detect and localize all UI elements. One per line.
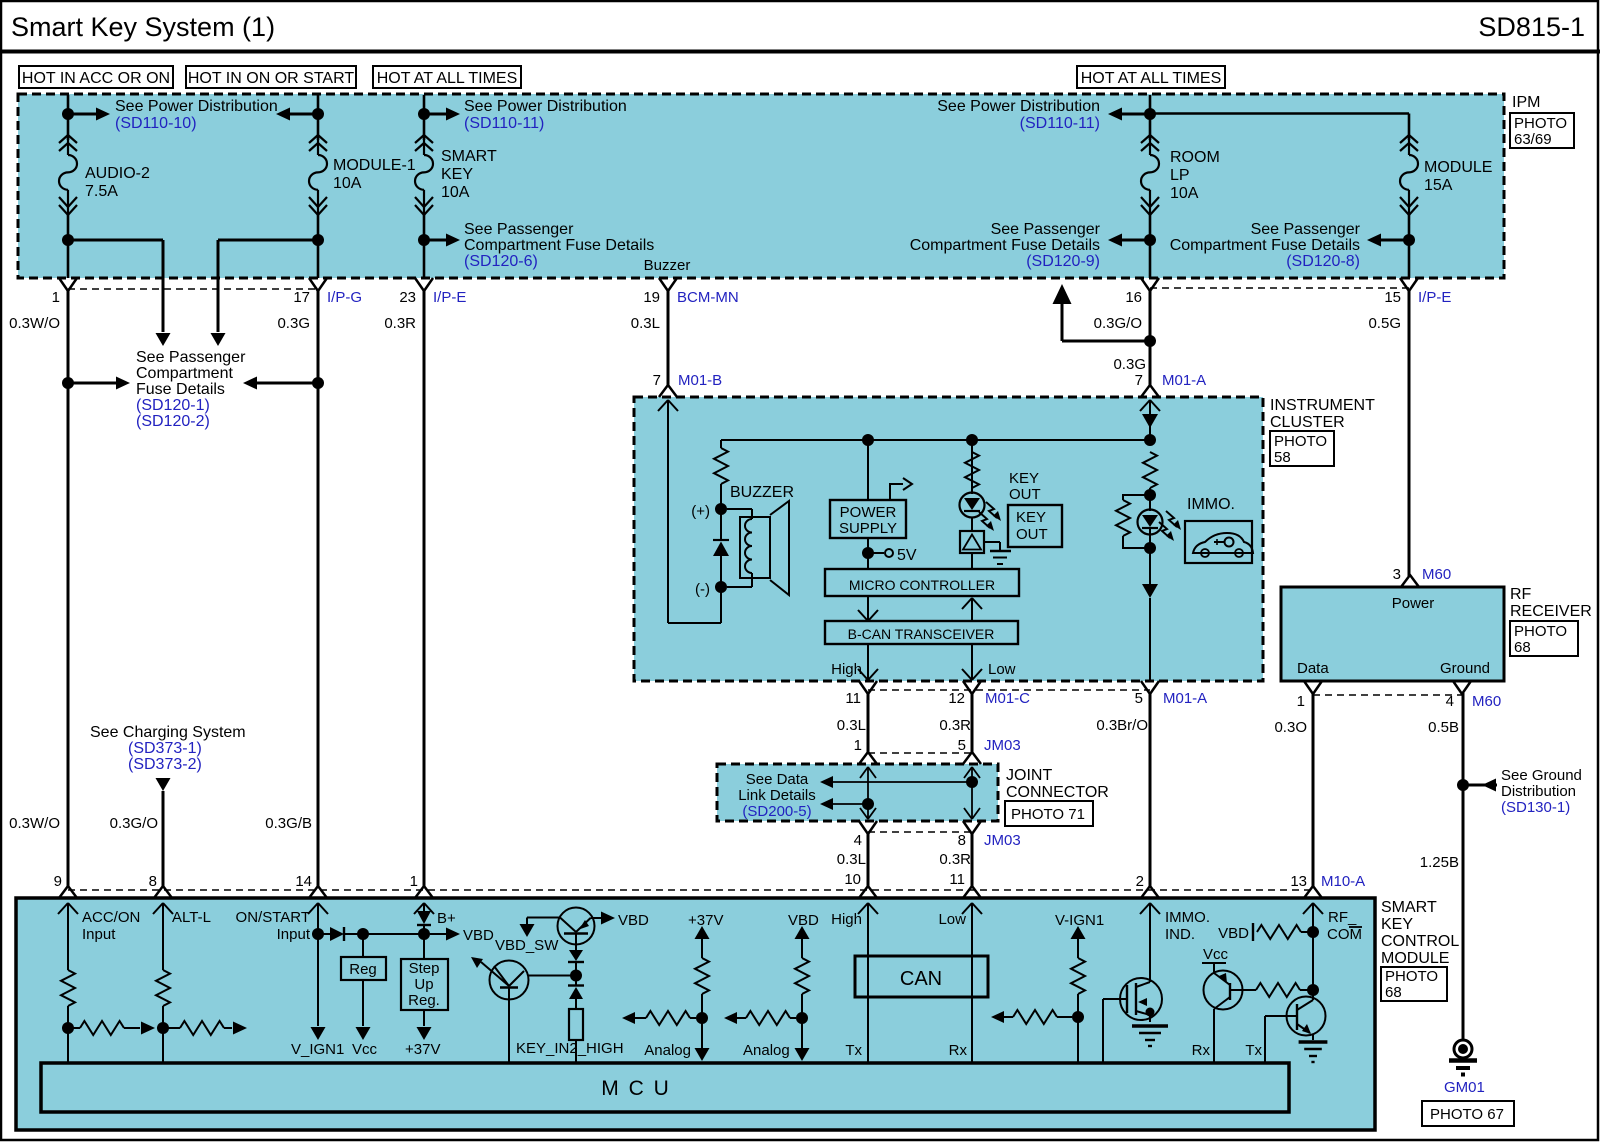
junction dot pin16 branch (1144, 335, 1156, 347)
connector pin symbol at x=1150 (1141, 278, 1159, 291)
svg-text:Data: Data (1297, 660, 1329, 677)
svg-text:HOT IN ACC OR ON: HOT IN ACC OR ON (22, 70, 170, 87)
svg-text:1: 1 (410, 873, 418, 890)
svg-text:COM: COM (1327, 926, 1362, 943)
svg-text:0.3L: 0.3L (837, 717, 866, 734)
power supply output flag (890, 484, 903, 500)
svg-text:PHOTO: PHOTO (1514, 623, 1567, 640)
RF PHOTO 68 box (1510, 621, 1578, 656)
arrow from charging system note (156, 778, 171, 791)
wire stub to SMART KEY fuse (423, 95, 426, 140)
wire 0.3G/O pin16 down (1149, 291, 1152, 386)
wire High JM03 to module pin10 (867, 833, 870, 887)
node dot ROOM LP bottom (1144, 234, 1156, 246)
node dot SMART KEY top (418, 108, 430, 120)
module pin 13 entry (1304, 886, 1322, 898)
node dot KEY OUT feed (966, 434, 978, 446)
svg-text:0.5B: 0.5B (1428, 719, 1459, 736)
connector pin symbol at x=68 (59, 278, 77, 291)
node dot ROOM LP top (1144, 108, 1156, 120)
svg-text:(SD120-1): (SD120-1) (136, 397, 210, 414)
svg-text:Analog: Analog (644, 1042, 691, 1059)
module pin 14 entry (309, 886, 327, 898)
svg-text:+37V: +37V (688, 912, 723, 929)
KEY OUT driver ground (984, 541, 1000, 543)
JM03 pin1 entry (859, 752, 877, 764)
cluster exit pin 12 (963, 681, 981, 694)
buzzer series resistor (714, 448, 728, 484)
B-CAN High output (867, 644, 869, 680)
svg-text:See Power Distribution: See Power Distribution (937, 98, 1100, 115)
svg-text:5: 5 (1135, 690, 1143, 707)
node dot IMMO LED bottom (1144, 542, 1156, 554)
node dot power supply feed (862, 434, 874, 446)
wire 0.3G/O charging to module pin8 (162, 791, 165, 887)
module pin 11 entry (963, 886, 981, 898)
svg-text:5: 5 (958, 737, 966, 754)
svg-text:1: 1 (52, 289, 60, 306)
svg-text:POWER: POWER (840, 504, 897, 521)
svg-text:0.3W/O: 0.3W/O (9, 315, 60, 332)
svg-text:M10-A: M10-A (1321, 873, 1365, 890)
label box HOT AT ALL TIMES (right) (1077, 66, 1225, 88)
svg-text:(SD373-1): (SD373-1) (128, 740, 202, 757)
svg-text:IMMO.: IMMO. (1165, 909, 1210, 926)
MCU box (41, 1063, 1289, 1112)
RF transmit emitter ground (1299, 1040, 1328, 1043)
svg-text:KEY: KEY (1016, 509, 1046, 526)
transistor key-in sense (490, 961, 529, 1000)
svg-text:V_IGN1: V_IGN1 (291, 1041, 344, 1058)
VBD_SW emitter to VBD (591, 917, 602, 919)
connector I/P-E dashed link right (1150, 287, 1409, 289)
connector JM03 bottom dashed link (868, 831, 972, 833)
svg-text:(SD120-9): (SD120-9) (1026, 253, 1100, 270)
svg-text:1: 1 (854, 737, 862, 754)
CAN box (855, 956, 988, 997)
svg-text:17: 17 (293, 289, 310, 306)
wire AUDIO-2 fuse to pin 1 (67, 215, 70, 278)
node dot VBD (418, 928, 430, 940)
arrow to data link note (bottom) (831, 803, 868, 805)
svg-text:VBD_SW: VBD_SW (495, 937, 559, 954)
svg-text:Low: Low (938, 911, 966, 928)
node dot V-IGN1 (1072, 1011, 1084, 1023)
wire 0.3G pin17 to module pin14 (317, 291, 320, 887)
svg-text:PHOTO 71: PHOTO 71 (1011, 806, 1085, 823)
node dot AUDIO-2 top (62, 108, 74, 120)
branch wire to passenger-compartment note (left) (68, 239, 163, 242)
svg-text:RF_: RF_ (1328, 909, 1357, 926)
svg-text:0.3O: 0.3O (1274, 719, 1307, 736)
Vcc output arrow (362, 934, 364, 957)
buzzer flyback diode (720, 509, 722, 540)
Vcc supply tick (1202, 962, 1226, 964)
wire stub to MODULE-1 fuse (317, 95, 320, 140)
wire stub to ROOM LP fuse (1149, 95, 1152, 140)
node dot MODULE 15A bottom (1403, 234, 1415, 246)
svg-text:Vcc: Vcc (352, 1041, 378, 1058)
svg-text:(SD120-6): (SD120-6) (464, 253, 538, 270)
node dot Reg input (357, 928, 369, 940)
INSTRUMENT CLUSTER box (dashed) (634, 397, 1263, 681)
svg-text:See Power Distribution: See Power Distribution (115, 98, 278, 115)
svg-text:KEY_IN2_HIGH: KEY_IN2_HIGH (516, 1040, 624, 1057)
wire SMART KEY fuse to pin 23 (423, 215, 426, 278)
arrow from See Ground Distribution (1463, 784, 1497, 787)
svg-text:Input: Input (277, 926, 311, 943)
arrow to See Passenger Compartment Fuse Details (SD120-6) (424, 239, 450, 242)
svg-text:CLUSTER: CLUSTER (1270, 414, 1345, 431)
PHOTO 67 box (1422, 1101, 1514, 1126)
node dot IMMO rail (1144, 434, 1156, 446)
RF_COM pullup resistor (1257, 925, 1301, 939)
module pin 10 entry (859, 886, 877, 898)
arrow left into fuse-details note (253, 382, 318, 385)
svg-text:IMMO.: IMMO. (1187, 496, 1235, 513)
arrow to data link note (top) (831, 781, 972, 783)
arrow left to See Passenger Compartment Fuse Details (SD120-9) (1117, 239, 1150, 242)
wire pin13 RF_COM (1312, 903, 1314, 1000)
svg-text:13: 13 (1290, 873, 1307, 890)
V-IGN1 sense resistor arrow (991, 1011, 1004, 1023)
fuse SMART KEY 10A (415, 135, 433, 143)
fuse MODULE-1 10A (309, 135, 327, 143)
svg-text:0.3G: 0.3G (277, 315, 310, 332)
wire 0.5G pin15 to RF pin3 (1408, 291, 1411, 576)
transistor RF transmit (1287, 997, 1326, 1036)
buzzer (+) node (715, 503, 727, 515)
arrow to See Power Distribution (SD110-11) (424, 113, 450, 116)
V_IGN1 output arrow (317, 934, 319, 1026)
B-CAN Low output (971, 644, 973, 680)
svg-text:0.3G/B: 0.3G/B (265, 815, 312, 832)
svg-text:(SD120-8): (SD120-8) (1286, 253, 1360, 270)
IMMO series resistor (1143, 452, 1157, 488)
svg-text:63/69: 63/69 (1514, 131, 1552, 148)
arrow down into note (left) (156, 333, 171, 346)
wire diode node to B+ node (363, 933, 424, 935)
buzzer coil and speaker (740, 517, 770, 578)
svg-text:10: 10 (844, 871, 861, 888)
ON/START wire (317, 903, 319, 934)
svg-text:Link Details: Link Details (738, 787, 816, 804)
svg-text:See Power Distribution: See Power Distribution (464, 98, 627, 115)
svg-text:KEY: KEY (441, 166, 473, 183)
svg-text:10A: 10A (1170, 185, 1199, 202)
svg-text:LP: LP (1170, 167, 1190, 184)
svg-text:VBD: VBD (618, 912, 649, 929)
KEY_IN2 series resistor (box) (575, 999, 577, 1009)
wire 0.3O RF data to module pin13 (1312, 693, 1315, 887)
CAN High wire (867, 903, 869, 1063)
node dot ALT-L (157, 1022, 169, 1034)
svg-text:Reg.: Reg. (408, 992, 440, 1009)
KEY_IN2 zener diode (575, 976, 577, 986)
arrow left into SD110-10 text (285, 113, 318, 116)
svg-text:CONNECTOR: CONNECTOR (1006, 784, 1109, 801)
svg-text:14: 14 (295, 873, 312, 890)
svg-text:Ground: Ground (1440, 660, 1490, 677)
svg-text:I/P-E: I/P-E (433, 289, 466, 306)
svg-text:PHOTO: PHOTO (1274, 433, 1327, 450)
svg-text:3: 3 (1393, 566, 1401, 583)
node dot AUDIO-2 bottom (62, 234, 74, 246)
key-in sense collector (508, 988, 510, 1064)
svg-text:5V: 5V (897, 547, 917, 564)
svg-text:Buzzer: Buzzer (644, 257, 691, 274)
arrow left to See Power Distribution (SD110-11) right (1117, 113, 1150, 116)
svg-text:MODULE: MODULE (1381, 950, 1449, 967)
svg-text:M60: M60 (1472, 693, 1501, 710)
svg-text:(SD110-11): (SD110-11) (1020, 115, 1100, 132)
label box HOT IN ON OR START (186, 66, 356, 88)
svg-text:68: 68 (1385, 984, 1402, 1001)
svg-text:4: 4 (1446, 693, 1454, 710)
svg-text:12: 12 (948, 690, 965, 707)
svg-text:B-CAN TRANSCEIVER: B-CAN TRANSCEIVER (848, 626, 995, 642)
svg-text:Analog: Analog (743, 1042, 790, 1059)
ACC/ON pulldown resistor (67, 903, 69, 970)
wire 0.3W/O pin1 to module pin9 (67, 291, 70, 887)
svg-text:23: 23 (399, 289, 416, 306)
svg-text:15: 15 (1384, 289, 1401, 306)
svg-text:High: High (831, 661, 862, 678)
node dot RF_COM base (1307, 984, 1319, 996)
svg-text:MICRO CONTROLLER: MICRO CONTROLLER (849, 577, 995, 593)
svg-text:68: 68 (1514, 639, 1531, 656)
svg-text:AUDIO-2: AUDIO-2 (85, 165, 150, 182)
node dot ACC/ON (62, 1022, 74, 1034)
node dot IMMO LED top (1144, 489, 1156, 501)
ON/START series diode (318, 933, 330, 935)
IMMO LED light arrows (1166, 511, 1177, 527)
arrow right into fuse-details note (68, 382, 120, 385)
svg-text:Reg: Reg (349, 961, 377, 978)
cluster wire M01-B to buzzer low side (667, 400, 669, 623)
svg-text:BCM-MN: BCM-MN (677, 289, 739, 306)
svg-text:11: 11 (845, 690, 861, 707)
B+ entry diode (423, 903, 425, 911)
title separator rule (0, 50, 1600, 54)
svg-text:8: 8 (149, 873, 157, 890)
ACC/ON sense resistor arrow (68, 1027, 80, 1029)
node dot MODULE-1 bottom (312, 234, 324, 246)
svg-text:(SD200-5): (SD200-5) (742, 803, 811, 820)
svg-text:Tx: Tx (845, 1042, 862, 1059)
svg-text:See Charging System: See Charging System (90, 724, 246, 741)
svg-text:0.3G/O: 0.3G/O (1094, 315, 1142, 332)
VBD_SW output diode (575, 934, 577, 951)
svg-text:INSTRUMENT: INSTRUMENT (1270, 397, 1375, 414)
RF transmit base wire (1265, 1015, 1297, 1017)
junction dot on 0.3W/O (62, 377, 74, 389)
svg-text:10A: 10A (333, 175, 362, 192)
power supply 5V node (867, 538, 869, 569)
svg-text:0.3G/O: 0.3G/O (110, 815, 158, 832)
svg-text:58: 58 (1274, 449, 1291, 466)
fuse MODULE 15A (1400, 135, 1418, 143)
connector M01-A entry into cluster (1141, 385, 1159, 397)
wire MODULE-1 fuse to pin 17 (317, 215, 320, 278)
svg-text:0.3R: 0.3R (384, 315, 416, 332)
svg-text:See Data: See Data (746, 771, 809, 788)
svg-text:JM03: JM03 (984, 737, 1021, 754)
svg-text:B+: B+ (437, 910, 456, 927)
connector pin symbol at x=1409 (1400, 278, 1418, 291)
connector pin symbol at x=318 (309, 278, 327, 291)
LED light arrows (986, 502, 997, 518)
svg-text:0.3L: 0.3L (837, 851, 866, 868)
svg-text:(SD120-2): (SD120-2) (136, 413, 210, 430)
+37V analog resistor arrow (622, 1012, 635, 1024)
svg-text:(+): (+) (691, 503, 710, 520)
svg-text:0.3Br/O: 0.3Br/O (1096, 717, 1148, 734)
svg-text:M C U: M C U (601, 1077, 671, 1100)
cluster exit pin 11 (859, 681, 877, 694)
svg-text:See Passenger: See Passenger (136, 349, 246, 366)
label box HOT AT ALL TIMES (left) (373, 66, 521, 88)
svg-text:10A: 10A (441, 184, 470, 201)
svg-text:ON/START: ON/START (236, 909, 310, 926)
key-in sense emitter arrow (481, 962, 509, 986)
svg-text:(SD110-11): (SD110-11) (464, 115, 544, 132)
svg-text:1.25B: 1.25B (1420, 854, 1459, 871)
branch arrow up into IPM box (1062, 340, 1150, 343)
connector pin symbol at x=424 (415, 278, 433, 291)
svg-text:Rx: Rx (949, 1042, 968, 1059)
svg-text:VBD: VBD (463, 927, 494, 944)
svg-text:V-IGN1: V-IGN1 (1055, 912, 1104, 929)
wire 0.5B RF ground to GM01 (1462, 693, 1465, 1040)
CAN Low wire (971, 903, 973, 1063)
svg-text:(SD373-2): (SD373-2) (128, 756, 202, 773)
svg-text:4: 4 (854, 832, 862, 849)
cluster supply rail (721, 439, 1150, 441)
svg-text:Compartment Fuse Details: Compartment Fuse Details (464, 237, 654, 254)
svg-text:Compartment Fuse Details: Compartment Fuse Details (1170, 237, 1360, 254)
svg-text:SD815-1: SD815-1 (1478, 12, 1585, 42)
module pin 9 entry (59, 886, 77, 898)
RF pin3 entry (1401, 575, 1419, 587)
joint connector wire low (971, 767, 973, 819)
RF exit pin 4 (1453, 681, 1471, 694)
V-IGN1 pullup arrow (1071, 926, 1086, 939)
svg-text:JM03: JM03 (984, 832, 1021, 849)
JM03 pin4 exit (860, 808, 876, 819)
svg-text:Smart Key System (1): Smart Key System (1) (11, 12, 275, 42)
node dot SMART KEY bottom (418, 234, 430, 246)
svg-text:See Passenger: See Passenger (1251, 221, 1361, 238)
svg-text:19: 19 (643, 289, 660, 306)
cluster PHOTO 58 box (1270, 431, 1334, 466)
svg-text:RECEIVER: RECEIVER (1510, 603, 1592, 620)
svg-text:IPM: IPM (1512, 94, 1540, 111)
svg-text:SMART: SMART (441, 148, 497, 165)
buzzer (-) node (715, 581, 727, 593)
wire Low cluster to JM03 (971, 693, 974, 753)
svg-text:16: 16 (1125, 289, 1142, 306)
module PHOTO 68 box (1381, 967, 1447, 1001)
VBD supply tick (1252, 923, 1254, 941)
svg-text:SMART: SMART (1381, 899, 1437, 916)
svg-text:ACC/ON: ACC/ON (82, 909, 140, 926)
svg-text:Rx: Rx (1192, 1042, 1211, 1059)
KEY OUT LED (960, 493, 985, 518)
svg-text:Step: Step (409, 960, 440, 977)
svg-text:HOT AT ALL TIMES: HOT AT ALL TIMES (1081, 70, 1222, 87)
svg-text:OUT: OUT (1009, 486, 1041, 503)
svg-text:High: High (831, 911, 862, 928)
connector M01-B entry into cluster (659, 385, 677, 397)
transistor RF receive (1213, 963, 1215, 973)
svg-text:Vcc: Vcc (1203, 946, 1229, 963)
svg-text:JOINT: JOINT (1006, 767, 1052, 784)
junction dot on 0.3G (312, 377, 324, 389)
svg-text:0.5G: 0.5G (1368, 315, 1401, 332)
wire MODULE 15A fuse to pin 15 (1408, 215, 1411, 278)
svg-text:Input: Input (82, 926, 116, 943)
power supply feed wire (867, 440, 869, 500)
wire 0.3R pin23 to module pin1 (423, 291, 426, 887)
VBD_SW control arrow (527, 917, 560, 919)
svg-text:Compartment: Compartment (136, 365, 233, 382)
svg-text:IND.: IND. (1165, 926, 1195, 943)
bcan-to-micro arrow up (971, 598, 973, 621)
wire High cluster to JM03 (867, 693, 870, 753)
ground symbol GM01 (1454, 1040, 1472, 1058)
svg-text:M60: M60 (1422, 566, 1451, 583)
svg-text:OUT: OUT (1016, 526, 1048, 543)
wire 0.3L pin19 to cluster pin7 M01-B (667, 291, 670, 386)
svg-text:(-): (-) (695, 581, 710, 598)
module pin 1 entry (415, 886, 433, 898)
svg-text:(SD110-10): (SD110-10) (115, 115, 197, 132)
svg-text:Fuse Details: Fuse Details (136, 381, 225, 398)
label box HOT IN ACC OR ON (19, 66, 173, 88)
svg-text:8: 8 (958, 832, 966, 849)
IMMO branch entry arrow (1149, 400, 1151, 440)
connector pin symbol at x=668 (659, 278, 677, 291)
svg-text:MODULE-1: MODULE-1 (333, 157, 416, 174)
RF RECEIVER box (1281, 587, 1504, 681)
node dot ground distribution (1457, 779, 1469, 791)
svg-text:M01-C: M01-C (985, 690, 1030, 707)
svg-text:VBD: VBD (788, 912, 819, 929)
branch wire to passenger-compartment note (right) (218, 239, 318, 242)
svg-text:0.3G: 0.3G (1113, 356, 1146, 373)
module pin 2 entry (1141, 886, 1159, 898)
PHOTO 71 box (1005, 801, 1093, 826)
IMMO LED parallel resistor (1123, 495, 1150, 500)
node dot ON/START (312, 928, 324, 940)
svg-text:PHOTO: PHOTO (1385, 968, 1438, 985)
svg-text:HOT IN ON OR START: HOT IN ON OR START (188, 70, 354, 87)
svg-text:M01-A: M01-A (1162, 372, 1206, 389)
key-in sense base wire (529, 975, 577, 977)
svg-text:I/P-E: I/P-E (1418, 289, 1451, 306)
+37V output arrow (423, 934, 425, 959)
wire Low JM03 to module pin11 (971, 833, 974, 887)
svg-text:See Ground: See Ground (1501, 767, 1582, 784)
ALT-L sense resistor arrow (163, 1027, 180, 1029)
MOSFET gate wire (1103, 998, 1127, 1000)
svg-text:7: 7 (1135, 372, 1143, 389)
arrow left to See Passenger Compartment Fuse Details (SD120-8) (1376, 239, 1409, 242)
svg-text:SUPPLY: SUPPLY (839, 520, 897, 537)
svg-text:PHOTO: PHOTO (1514, 115, 1567, 132)
fuse ROOM LP 10A (1141, 135, 1159, 143)
